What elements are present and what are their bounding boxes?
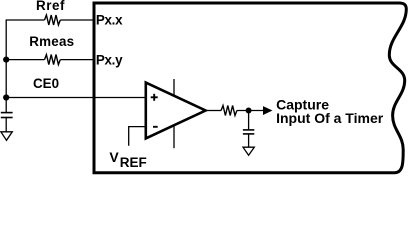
power pin top of op-amp	[173, 79, 175, 96]
power pin bottom of op-amp	[173, 125, 175, 148]
wire op-amp output	[206, 110, 222, 112]
wire Px.x row right lead	[60, 19, 94, 21]
svg-text:REF: REF	[120, 155, 147, 170]
svg-text:Px.x: Px.x	[96, 12, 123, 27]
svg-text:Rref: Rref	[36, 0, 65, 13]
wire output node to capacitor C2	[248, 111, 250, 130]
wire Px.x row left lead	[6, 19, 45, 21]
ground symbol right	[243, 147, 254, 155]
junction dot at CE0 row	[3, 94, 9, 100]
wire cap C1 to ground	[5, 118, 7, 132]
label Capture Input Of a Timer	[276, 97, 384, 127]
svg-text:Input Of a Timer: Input Of a Timer	[276, 110, 384, 126]
capacitor C1 (left filter cap)	[1, 113, 13, 118]
junction dot at Px.y row	[3, 57, 9, 63]
junction dot output node	[246, 108, 252, 114]
wire VREF to inverting input	[129, 127, 146, 146]
IC boundary U1 (microcontroller outline with torn right edge)	[94, 3, 406, 173]
minus sign (inverting input)	[153, 126, 158, 128]
svg-text:Rmeas: Rmeas	[29, 34, 74, 49]
op-amp comparator U2	[146, 83, 206, 139]
wire Px.y row right lead	[60, 59, 94, 61]
wire Px.y row left lead	[6, 59, 45, 61]
wire to capture input	[237, 110, 263, 112]
wire CE0 to comparator non-inverting input	[6, 97, 146, 99]
plus sign (non-inverting input)	[151, 94, 158, 101]
label VREF	[109, 149, 146, 170]
capacitor C2 (output filter cap)	[243, 130, 254, 134]
svg-text:Px.y: Px.y	[96, 52, 123, 67]
resistor Rmeas	[45, 55, 61, 65]
svg-text:V: V	[109, 149, 119, 165]
svg-text:CE0: CE0	[33, 76, 59, 91]
arrowhead capture input	[263, 106, 273, 115]
wire left vertical rail	[5, 20, 7, 113]
resistor Rref	[45, 15, 61, 25]
resistor R2 (output series)	[221, 106, 237, 116]
wire cap C2 to ground	[248, 134, 250, 147]
ground symbol left	[1, 132, 12, 141]
